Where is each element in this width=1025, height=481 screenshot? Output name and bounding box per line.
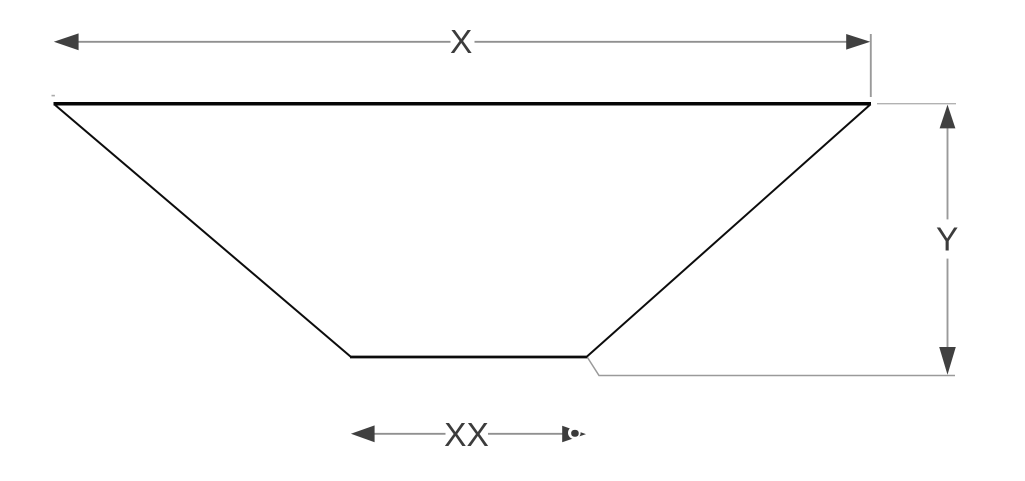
X dimension right arrowhead	[846, 34, 870, 50]
Y dimension up arrowhead	[940, 105, 956, 129]
XX dimension line left segment	[372, 433, 446, 435]
Y dimension lower segment	[947, 259, 949, 349]
extension line right vertical (top)	[870, 34, 872, 97]
tick above top-left corner	[52, 95, 55, 97]
extension line from bottom-right corner	[588, 358, 956, 376]
cursor dot	[571, 430, 579, 437]
Y dimension down arrowhead	[939, 347, 956, 375]
trapezoid right slope	[587, 104, 871, 356]
cursor white ring	[568, 427, 581, 440]
trapezoid top edge	[54, 102, 872, 106]
Y dimension upper segment	[947, 127, 949, 220]
extension line from top-right corner	[877, 103, 956, 105]
svg-text:Y: Y	[936, 222, 958, 259]
X dimension line right segment	[475, 41, 849, 43]
trapezoid bottom edge	[350, 356, 588, 359]
svg-text:XX: XX	[444, 417, 489, 454]
trapezoid left slope	[55, 105, 351, 357]
svg-text:X: X	[450, 24, 472, 61]
X dimension left arrowhead	[54, 33, 79, 50]
XX dimension right arrowhead (overlapped by cursor)	[562, 426, 586, 443]
XX dimension left arrowhead	[351, 425, 375, 442]
X dimension line left segment	[76, 41, 451, 43]
XX dimension line right segment	[488, 433, 563, 435]
